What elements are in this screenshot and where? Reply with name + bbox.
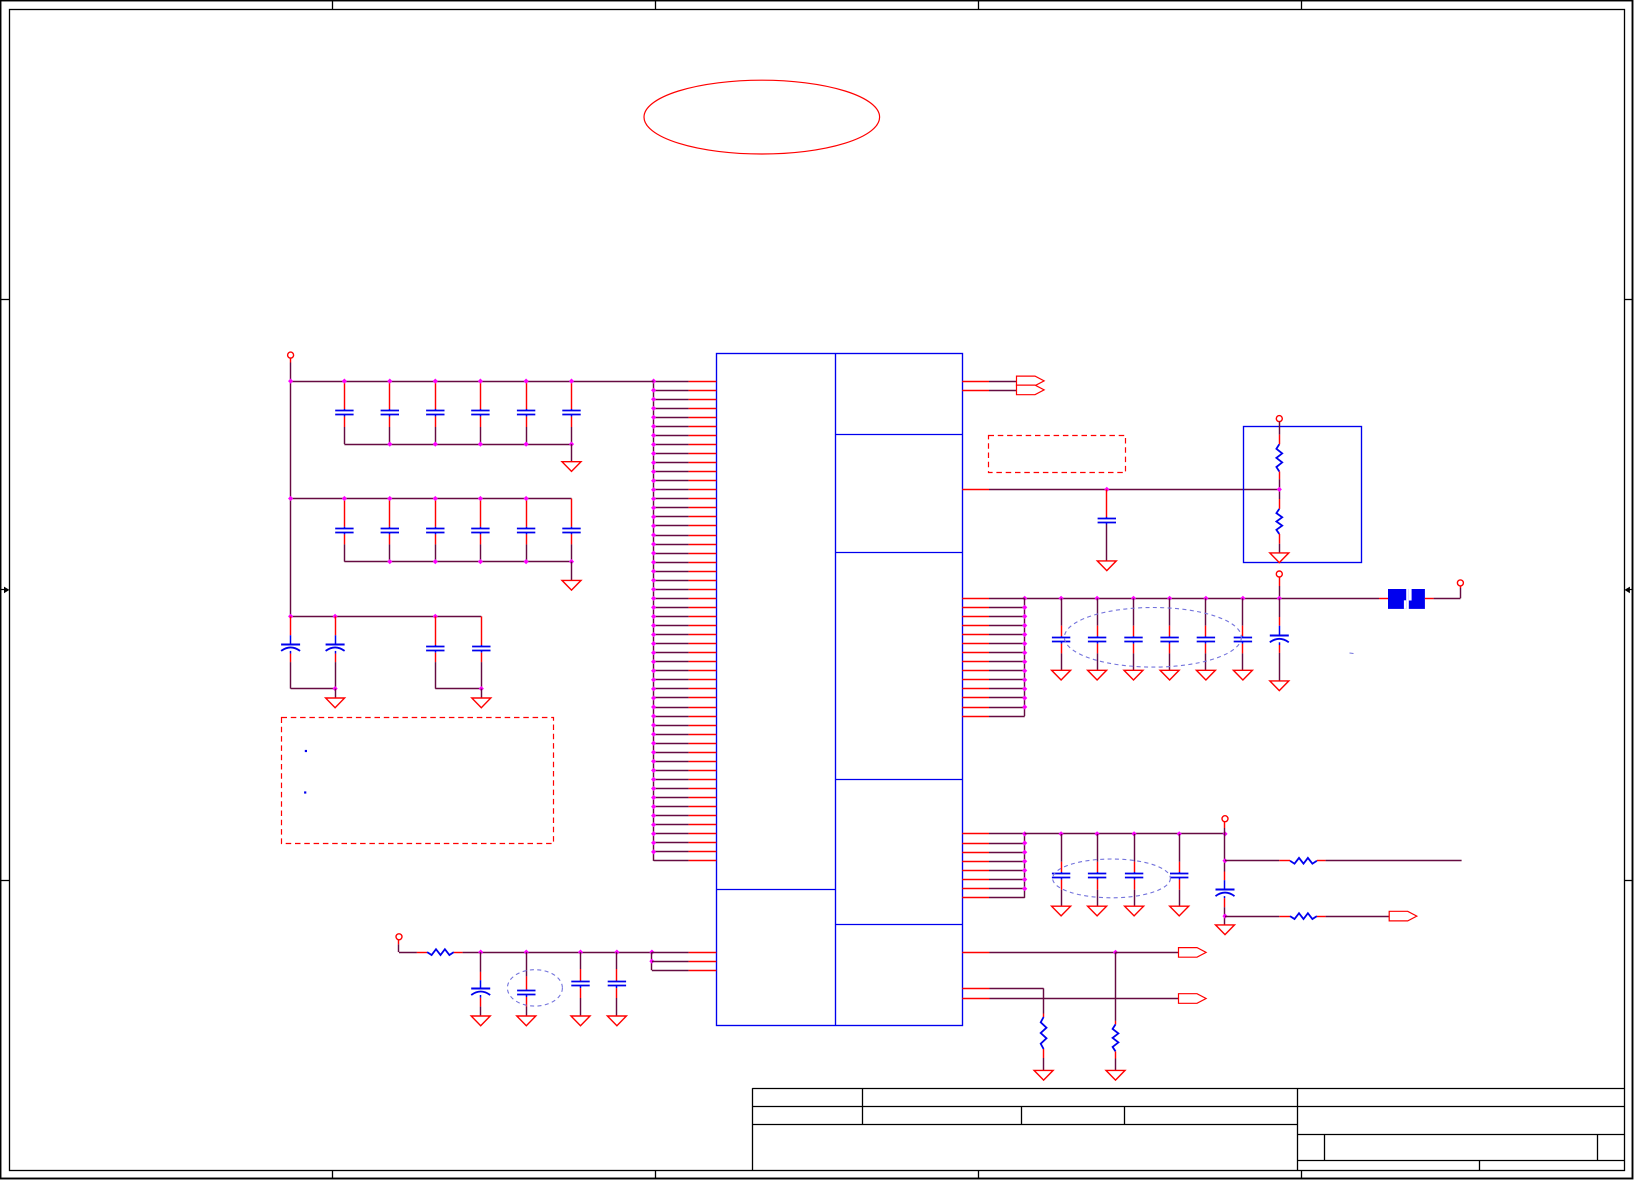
IC U1 left pin 23 (654, 580, 689, 582)
junction bus L1 tap C4 (478, 379, 483, 384)
port PA upper (1017, 376, 1045, 386)
junction bus R1 tap C25 (1167, 596, 1172, 601)
junction bus R2 tap C30 (1095, 831, 1100, 836)
IC U1 left pin 50 (654, 824, 689, 826)
junction branch R4 (1222, 858, 1227, 863)
wire bank L2 ground lead (571, 562, 573, 581)
IC U1 left pin 31 (654, 652, 689, 654)
ground group L3 left (326, 698, 345, 708)
junction bus L1 bottom (387, 442, 392, 447)
left pin bus vertical (653, 381, 655, 861)
junction bus R1 tap C22 (1059, 596, 1064, 601)
IC U1 right pin row A2 (962, 390, 989, 392)
IC U1 left pin 44 (654, 770, 689, 772)
wire bus L1 top (291, 381, 654, 383)
ground C24 (1124, 670, 1143, 680)
IC U1 left pin 8 (654, 444, 689, 446)
wire R3 to ground (1279, 534, 1281, 544)
IC U1 right pin C10 (962, 679, 989, 681)
power pin P6 (1222, 816, 1228, 822)
wire row E1 to port PC (1116, 952, 1179, 954)
IC U1 right section divider 2 (835, 552, 962, 554)
capacitor C1 (344, 381, 346, 409)
ground C19 (571, 1016, 590, 1026)
power pin P3 (1276, 416, 1282, 422)
IC U1 left pin 54 (654, 860, 689, 862)
ground bank L2 (562, 580, 581, 590)
divider box outline (1244, 427, 1362, 563)
frame centering arrow right (1629, 589, 1633, 591)
IC U1 left pin 40 (654, 734, 689, 736)
IC U1 left pin 47 (654, 797, 689, 799)
capacitor C33 polarized (1224, 872, 1226, 881)
IC U1 right pin C1 (962, 598, 989, 600)
IC U1 left pin 24 (654, 589, 689, 591)
ground group L3 right (472, 698, 491, 708)
annotation dot 2 (304, 791, 306, 793)
IC U1 internal divider vertical (835, 353, 837, 1025)
junction bus L1 bottom (524, 442, 529, 447)
junction bus L1 tap C6 (569, 379, 574, 384)
title block right row line 3 (1297, 1134, 1624, 1136)
resistor R5 (1290, 913, 1317, 919)
junction bus BL row 2 (649, 959, 654, 964)
frame zone tick top 1 (332, 1, 334, 9)
junction bus L2 tap C11 (524, 496, 529, 501)
capacitor C26 (1205, 598, 1207, 625)
dashed annotation box right (989, 436, 1126, 473)
IC U1 left pin 26 (654, 607, 689, 609)
IC U1 left pin 36 (654, 697, 689, 699)
IC U1 right pin row E2 (962, 988, 989, 990)
wire R7 to ground (1115, 1051, 1117, 1058)
resistor R3 (1276, 509, 1282, 534)
port PC (1179, 948, 1207, 958)
IC U1 right pin D6 (962, 879, 989, 881)
frame zone tick top 2 (655, 1, 657, 9)
IC U1 left pin 33 (654, 670, 689, 672)
IC U1 left pin 1 (654, 381, 689, 383)
IC U1 right pin C4 (962, 625, 989, 627)
junction bus L2 at rail (288, 496, 293, 501)
ground C22 (1052, 670, 1071, 680)
IC U1 left pin 25 (654, 598, 689, 600)
IC U1 left pin 17 (654, 525, 689, 527)
junction bus R1 tap C26 (1203, 596, 1208, 601)
title block left edge (752, 1088, 754, 1171)
junction bus BL tap C20 (614, 950, 619, 955)
capacitor C11 (526, 499, 528, 527)
junction node B cap tap (1104, 487, 1109, 492)
capacitor C30 (1097, 834, 1099, 862)
IC U1 right section divider 4 (835, 924, 962, 926)
IC U1 left pin 13 (654, 489, 689, 491)
wire bus L1 bottom (344, 444, 571, 446)
wire power rail left vertical (290, 358, 292, 362)
ground divider (1270, 553, 1289, 563)
IC U1 left pin 38 (654, 716, 689, 718)
ground C27 (1233, 670, 1252, 680)
junction bus R2 right (1222, 831, 1227, 836)
wire ground lead L3 left (335, 689, 337, 698)
wire bus BL vertical (651, 952, 653, 970)
frame zone tick bottom 4 (1301, 1171, 1303, 1179)
ground C30 (1088, 906, 1107, 916)
junction bus R2 tap C31 (1132, 831, 1137, 836)
capacitor C7 (344, 499, 346, 527)
junction bus R1 tap C28 (1277, 596, 1282, 601)
junction bus BL tap C18 (524, 950, 529, 955)
IC U1 right pin D5 (962, 870, 989, 872)
IC U1 left pin 5 (654, 417, 689, 419)
wire branch R4 (1225, 860, 1279, 862)
wire bus L3 top (291, 616, 482, 618)
IC U1 bottom-left pin row 3 (652, 970, 689, 972)
junction bus BL tap C17 (478, 950, 483, 955)
dashed highlight ellipse around C18 (507, 970, 562, 1006)
capacitor C15 (435, 616, 437, 645)
IC U1 right pin C9 (962, 670, 989, 672)
IC U1 left pin 20 (654, 553, 689, 555)
IC U1 left pin 37 (654, 707, 689, 709)
junction bus L1 at rail (288, 379, 293, 384)
ground R6 (1034, 1070, 1053, 1080)
capacitor C3 (435, 381, 437, 409)
capacitor C17 polarized (480, 952, 482, 972)
IC U1 left pin 15 (654, 507, 689, 509)
IC U1 left pin 9 (654, 453, 689, 455)
junction bus L2 tap C8 (387, 496, 392, 501)
junction bus L1 tap C2 (387, 379, 392, 384)
capacitor C25 (1169, 598, 1171, 625)
port PB (1389, 911, 1417, 921)
IC U1 right pin C12 (962, 697, 989, 699)
IC U1 bottom-left pin row 2 (652, 961, 689, 963)
resistor R6 (1041, 1017, 1047, 1049)
capacitor C32 (1179, 834, 1181, 862)
red ellipse marking (644, 80, 880, 154)
IC U1 left pin 21 (654, 562, 689, 564)
capacitor C4 (480, 381, 482, 409)
capacitor C12 (571, 499, 573, 527)
IC U1 left pin 39 (654, 725, 689, 727)
wire branch R5 (1225, 916, 1279, 918)
capacitor C10 (480, 499, 482, 527)
IC U1 right pin row E3 (962, 998, 989, 1000)
IC U1 left pin 14 (654, 498, 689, 500)
IC U1 left pin 29 (654, 634, 689, 636)
junction bus L1 bottom (478, 442, 483, 447)
wire bus L2 top (291, 498, 572, 500)
IC U1 right pin D8 (962, 897, 989, 899)
IC U1 left pin 35 (654, 688, 689, 690)
IC U1 left pin 48 (654, 806, 689, 808)
wire R6 column (1043, 988, 1045, 1013)
capacitor C8 (389, 499, 391, 527)
capacitor C9 (435, 499, 437, 527)
IC U1 left pin 49 (654, 815, 689, 817)
title block right cell v1 (1324, 1134, 1326, 1161)
IC U1 left pin 34 (654, 679, 689, 681)
IC U1 right section divider 1 (835, 434, 962, 436)
junction bus L1 bottom (569, 442, 574, 447)
IC U1 left pin 42 (654, 752, 689, 754)
ground C23 (1088, 670, 1107, 680)
title block bottom cell divider (1479, 1161, 1481, 1171)
power pin P4 (1276, 571, 1282, 577)
capacitor C21 (1106, 489, 1108, 517)
wire node B to R3 (1279, 499, 1281, 509)
power pin P1 (288, 352, 294, 358)
IC U1 left pin 53 (654, 851, 689, 853)
junction bus R1 tap C27 (1240, 596, 1245, 601)
wire group L3 bottom right (435, 688, 481, 690)
junction bus R1 tap C23 (1095, 596, 1100, 601)
IC U1 right pin row A1 (962, 381, 989, 383)
ground C17 (471, 1016, 490, 1026)
wire node B to divider (989, 489, 1279, 491)
dashed highlight ellipse bank R2 (1053, 859, 1171, 898)
IC U1 left pin 4 (654, 408, 689, 410)
port PD (1179, 994, 1207, 1004)
wire bus R2 (1025, 833, 1225, 835)
IC U1 left pin 43 (654, 761, 689, 763)
IC U1 left pin 12 (654, 480, 689, 482)
junction branch R5 (1222, 914, 1227, 919)
IC U1 left pin 51 (654, 833, 689, 835)
IC U1 left section divider (716, 889, 835, 891)
IC U1 left pin 3 (654, 399, 689, 401)
IC U1 left pin 7 (654, 435, 689, 437)
wire R6 to ground (1043, 1049, 1045, 1058)
IC U1 right pin C8 (962, 661, 989, 663)
resistor R4 (1290, 858, 1317, 864)
frame zone tick left 1 (1, 299, 9, 301)
capacitor C6 (571, 381, 573, 409)
title block divider v1 (862, 1088, 864, 1124)
ground C32 (1170, 906, 1189, 916)
IC U1 right pin C11 (962, 688, 989, 690)
ground C25 (1160, 670, 1179, 680)
IC U1 left pin 41 (654, 743, 689, 745)
junction bus L1 tap C3 (433, 379, 438, 384)
capacitor C2 (389, 381, 391, 409)
title block divider v2 (1021, 1107, 1023, 1124)
annotation dot 1 (305, 750, 307, 752)
ground C28 (1270, 681, 1289, 691)
ground C21 (1097, 561, 1116, 571)
junction bus L1 tap C5 (524, 379, 529, 384)
wire R5 to port PB (1317, 916, 1326, 918)
ground R7 (1106, 1070, 1125, 1080)
junction bus R1 tap C24 (1131, 596, 1136, 601)
wire node down to branch 1 (1224, 834, 1226, 872)
junction bus L2 bottom (569, 559, 574, 564)
junction bus L2 bottom (524, 559, 529, 564)
ground C31 (1125, 906, 1144, 916)
IC U1 left pin 2 (654, 390, 689, 392)
junction bus L2 bottom (478, 559, 483, 564)
junction bus L1 bottom (433, 442, 438, 447)
title block divider v3 (1124, 1107, 1126, 1124)
dashed annotation box left (282, 718, 554, 844)
junction node B at divider (1277, 487, 1282, 492)
junction bus BL row 1 (649, 950, 654, 955)
wire P6 drop (1224, 822, 1226, 828)
wire P2 drop (398, 940, 400, 945)
IC U1 right pin C13 (962, 707, 989, 709)
IC U1 right pin D7 (962, 888, 989, 890)
IC U1 left pin 30 (654, 643, 689, 645)
IC U1 right pin D1 (962, 833, 989, 835)
wire bus L2 bottom (344, 561, 571, 563)
ferrite bead FB1 (1388, 589, 1406, 609)
IC U1 right pin C5 (962, 634, 989, 636)
frame zone tick left 2 (1, 880, 9, 882)
IC U1 left pin 6 (654, 426, 689, 428)
junction bus L2 tap C9 (433, 496, 438, 501)
capacitor C19 (580, 952, 582, 969)
frame zone tick top 4 (1301, 1, 1303, 9)
resistor R2 (1276, 444, 1282, 471)
junction bus L2 tap C10 (478, 496, 483, 501)
capacitor C27 (1242, 598, 1244, 625)
wire R4 tail (1317, 860, 1326, 862)
frame zone tick top 3 (978, 1, 980, 9)
junction bus L3 at rail (288, 614, 293, 619)
wire R1 to bus BL (454, 952, 463, 954)
capacitor C18 (526, 952, 528, 976)
junction bus L1 tap C1 (342, 379, 347, 384)
IC U1 right pin C2 (962, 607, 989, 609)
IC U1 right pin C14 (962, 716, 989, 718)
wire group L3 bottom left (291, 688, 336, 690)
title block left row line 3 (752, 1124, 1297, 1126)
IC U1 left pin 11 (654, 471, 689, 473)
IC U1 left pin 10 (654, 462, 689, 464)
capacitor C14 polarized (335, 616, 337, 635)
power pin P5 (1457, 580, 1463, 586)
frame zone tick bottom 2 (655, 1171, 657, 1179)
IC U1 right pin D3 (962, 852, 989, 854)
junction bus R2 tap C32 (1177, 831, 1182, 836)
IC U1 bottom-left pin row 1 (652, 952, 689, 954)
IC U1 left pin 19 (654, 544, 689, 546)
capacitor C31 (1134, 834, 1136, 862)
junction group L3 ground left (333, 686, 338, 691)
junction row E1 (1113, 950, 1118, 955)
IC U1 right pin C7 (962, 652, 989, 654)
title block top line (752, 1088, 1624, 1090)
wire R7 column (1115, 952, 1117, 1021)
stray dash mark (1350, 652, 1354, 655)
capacitor C13 polarized (290, 616, 292, 635)
right pin bus vertical 2 (1024, 834, 1026, 898)
wire bank L1 ground lead (571, 444, 573, 462)
resistor R1 (427, 949, 454, 955)
frame zone tick bottom 1 (332, 1171, 334, 1179)
resistor R7 (1113, 1024, 1119, 1051)
IC U1 left pin 46 (654, 788, 689, 790)
IC U1 left pin 28 (654, 625, 689, 627)
capacitor C16 (481, 616, 483, 645)
capacitor C23 (1097, 598, 1099, 625)
IC U1 left pin 27 (654, 616, 689, 618)
IC U1 left pin 52 (654, 842, 689, 844)
junction bus L2 bottom (387, 559, 392, 564)
frame zone tick right 1 (1625, 299, 1633, 301)
capacitor C20 (616, 952, 618, 969)
IC U1 left pin 32 (654, 661, 689, 663)
wire ground lead L3 right (481, 689, 483, 698)
IC U1 right pin C3 (962, 616, 989, 618)
wire R2 to node B (1279, 472, 1281, 480)
ground C26 (1196, 670, 1215, 680)
IC U1 right pin C6 (962, 643, 989, 645)
IC U1 left pin 16 (654, 516, 689, 518)
port PA lower (1017, 385, 1045, 395)
junction bus L2 tap C7 (342, 496, 347, 501)
IC U1 left pin 22 (654, 571, 689, 573)
IC U1 left pin 45 (654, 779, 689, 781)
title block row line 2 (752, 1106, 1624, 1108)
power pin P2 (396, 934, 402, 940)
IC U1 right section divider 3 (835, 779, 962, 781)
frame zone tick right 2 (1625, 880, 1633, 882)
junction bus L3 tap C14 (333, 614, 338, 619)
wire bus R1 (1025, 598, 1379, 600)
IC U1 right pin D4 (962, 861, 989, 863)
frame zone tick bottom 3 (978, 1171, 980, 1179)
IC U1 outline (717, 354, 963, 1026)
IC U1 right pin row E1 (962, 952, 989, 954)
capacitor C22 (1061, 598, 1063, 625)
title block right cell v2 (1597, 1134, 1599, 1161)
IC U1 right pin row B (962, 489, 989, 491)
junction bus L2 bottom (433, 559, 438, 564)
junction bus R1 comb (1022, 596, 1027, 601)
IC U1 left pin 18 (654, 535, 689, 537)
ground C20 (607, 1016, 626, 1026)
title block main divider (1297, 1088, 1299, 1171)
junction bus L3 tap C15 (433, 614, 438, 619)
junction group L3 ground right (479, 686, 484, 691)
IC U1 right pin D2 (962, 843, 989, 845)
wire P2 to R1 (399, 952, 417, 954)
junction bus BL tap C19 (578, 950, 583, 955)
junction bus R2 tap C29 (1059, 831, 1064, 836)
dashed highlight ellipse bank R1 (1064, 608, 1241, 668)
ground C29 (1052, 906, 1071, 916)
wire P4 drop (1279, 577, 1281, 586)
capacitor C24 (1133, 598, 1135, 625)
frame centering arrow left (1, 589, 5, 591)
wire bus R1 to bead FB1 (1379, 598, 1388, 600)
ground C18 (517, 1016, 536, 1026)
title block right row line 4 (1297, 1160, 1624, 1162)
wire P3 to R2 (1279, 422, 1281, 435)
right pin bus vertical 1 (1024, 598, 1026, 716)
wire FB1 to P5 (1425, 598, 1434, 600)
ground bank L1 (562, 462, 581, 472)
capacitor C28 polarized (1279, 598, 1281, 617)
capacitor C29 (1061, 834, 1063, 862)
ground node 1225 (1216, 925, 1235, 935)
capacitor C5 (526, 381, 528, 409)
